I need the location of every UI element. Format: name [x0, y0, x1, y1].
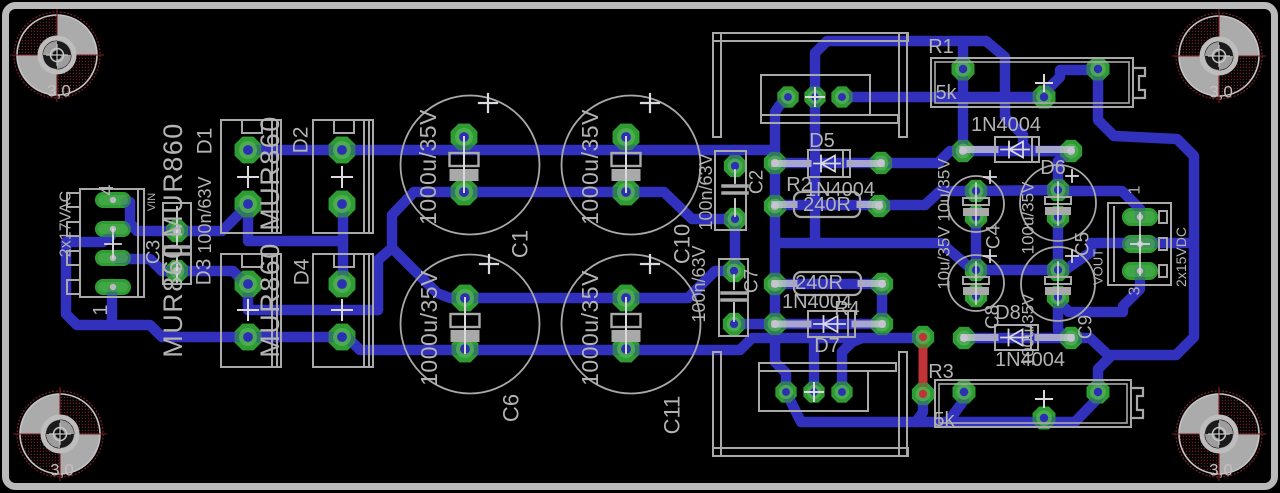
svg-text:MUR860: MUR860: [255, 115, 285, 231]
svg-text:VIN: VIN: [146, 193, 158, 211]
svg-text:2x15VDC: 2x15VDC: [1173, 227, 1189, 287]
svg-text:5k: 5k: [935, 82, 957, 104]
svg-text:240R: 240R: [803, 194, 851, 216]
svg-text:3,0: 3,0: [47, 82, 71, 101]
svg-text:D2: D2: [290, 127, 313, 154]
svg-text:MUR860: MUR860: [158, 242, 188, 358]
svg-text:10u/35V: 10u/35V: [935, 158, 954, 222]
svg-text:1: 1: [1127, 185, 1144, 194]
svg-text:3,0: 3,0: [1209, 461, 1233, 480]
svg-text:D5: D5: [809, 130, 835, 152]
svg-text:3: 3: [1127, 286, 1144, 295]
svg-text:MUR860: MUR860: [158, 122, 188, 238]
svg-text:1000u/35V: 1000u/35V: [416, 270, 442, 386]
svg-text:5k: 5k: [933, 409, 955, 431]
svg-text:4: 4: [96, 184, 118, 195]
svg-text:2x17VAC: 2x17VAC: [58, 191, 75, 257]
svg-text:100n/63V: 100n/63V: [696, 153, 716, 230]
svg-text:100u/35V: 100u/35V: [1019, 293, 1038, 366]
svg-text:C2: C2: [747, 170, 768, 194]
svg-text:R3: R3: [928, 361, 954, 383]
svg-text:10u/35V: 10u/35V: [935, 226, 954, 290]
svg-text:D4: D4: [291, 258, 314, 285]
svg-text:100u/35V: 100u/35V: [1019, 181, 1038, 254]
svg-text:C1: C1: [508, 230, 533, 258]
svg-text:1: 1: [90, 304, 112, 315]
svg-text:3,0: 3,0: [50, 461, 74, 480]
svg-text:VOUT: VOUT: [1091, 249, 1106, 285]
svg-text:R4: R4: [834, 298, 860, 320]
svg-text:C9: C9: [1076, 315, 1097, 339]
svg-text:100n/63V: 100n/63V: [195, 176, 215, 253]
svg-text:C11: C11: [660, 396, 685, 435]
svg-text:MUR860: MUR860: [255, 242, 285, 358]
svg-text:100n/63V: 100n/63V: [689, 245, 709, 322]
svg-text:D6: D6: [1040, 157, 1066, 179]
svg-text:1N4004: 1N4004: [971, 114, 1041, 136]
svg-text:D1: D1: [194, 128, 217, 155]
svg-text:D7: D7: [814, 335, 840, 357]
svg-text:D3: D3: [193, 259, 216, 286]
svg-text:R1: R1: [928, 36, 954, 58]
svg-text:1000u/35V: 1000u/35V: [415, 109, 441, 225]
svg-text:C6: C6: [499, 394, 524, 422]
svg-text:R2: R2: [786, 174, 812, 196]
svg-text:3,0: 3,0: [1209, 83, 1233, 102]
svg-text:C8: C8: [983, 305, 1004, 329]
svg-text:1000u/35V: 1000u/35V: [577, 109, 603, 225]
svg-text:C7: C7: [742, 269, 763, 293]
svg-text:C4: C4: [984, 224, 1005, 249]
svg-text:1000u/35V: 1000u/35V: [577, 270, 603, 386]
